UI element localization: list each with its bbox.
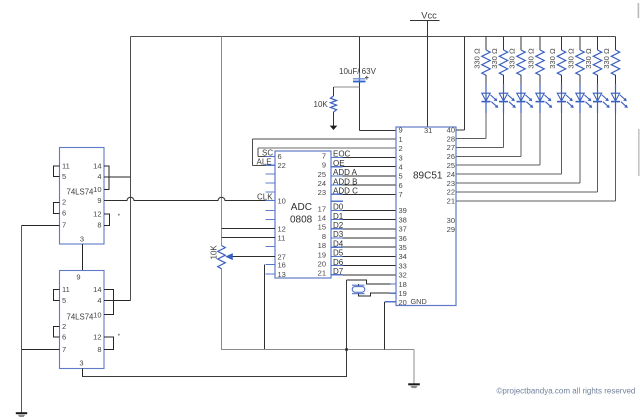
wire U3 pin 7 to ground line bbox=[22, 349, 60, 351]
svg-text:5: 5 bbox=[399, 172, 403, 181]
svg-text:35: 35 bbox=[399, 243, 407, 252]
svg-text:23: 23 bbox=[447, 179, 455, 188]
svg-text:27: 27 bbox=[447, 143, 455, 152]
ic U1 ADC 0808 bbox=[275, 151, 331, 279]
svg-text:12: 12 bbox=[93, 333, 101, 342]
ic U2 74LS74 (upper) bbox=[60, 148, 105, 245]
ground symbol right bbox=[408, 383, 420, 388]
ADC free right pin stub bbox=[331, 200, 343, 202]
svg-text:38: 38 bbox=[399, 215, 407, 224]
wire left vertical from rail to U3 pin4 bracket bbox=[130, 37, 132, 301]
svg-text:26: 26 bbox=[447, 152, 455, 161]
svg-text:8: 8 bbox=[97, 345, 101, 354]
svg-text:ADD A: ADD A bbox=[333, 168, 358, 177]
svg-text:ADC: ADC bbox=[291, 202, 312, 213]
svg-text:32: 32 bbox=[399, 271, 407, 280]
wire ADC D6 to 89C51 bbox=[331, 258, 396, 267]
svg-text:©projectbandya.com all rights: ©projectbandya.com all rights reserved bbox=[497, 387, 636, 396]
bracket U3 pins 11-5 bbox=[22, 290, 348, 378]
wire ground rail down to ground symbol bbox=[413, 350, 415, 384]
ADC unconnected input pin ticks bbox=[266, 157, 276, 274]
svg-text:9: 9 bbox=[76, 273, 80, 282]
resistor R9 10K bbox=[314, 96, 337, 112]
svg-text:74LS74: 74LS74 bbox=[67, 188, 95, 197]
wire pot top to ADC pin 11 bbox=[222, 237, 276, 239]
svg-text:330 Ω: 330 Ω bbox=[473, 48, 482, 69]
wire gray vertical rail to pot bbox=[221, 37, 223, 246]
svg-text:10: 10 bbox=[93, 185, 101, 194]
ADC left pin stubs bbox=[266, 156, 276, 158]
svg-text:29: 29 bbox=[447, 225, 455, 234]
resistor R5 330 ohm bbox=[548, 37, 566, 76]
svg-text:10K: 10K bbox=[314, 100, 329, 109]
svg-text:30: 30 bbox=[447, 216, 455, 225]
svg-text:6: 6 bbox=[399, 181, 403, 190]
svg-text:14: 14 bbox=[93, 162, 101, 171]
wire LED D6 to 89C51 pin 23 bbox=[456, 113, 580, 183]
svg-text:16: 16 bbox=[278, 261, 286, 270]
resistor R2 330 ohm bbox=[490, 37, 508, 76]
svg-text:9: 9 bbox=[399, 126, 403, 135]
svg-text:18: 18 bbox=[399, 280, 407, 289]
svg-text:6: 6 bbox=[62, 333, 66, 342]
wiper arrow to ADC pin 27 bbox=[225, 253, 275, 260]
svg-text:21: 21 bbox=[318, 269, 326, 278]
wire Vcc stem to 89C51 pin 31 bbox=[427, 21, 429, 128]
wire crystal node down to ground rail and pin3 line bbox=[346, 280, 348, 377]
svg-text:D0: D0 bbox=[333, 203, 344, 212]
svg-text:7: 7 bbox=[62, 345, 66, 354]
wire ADC ADD B to 89C51 bbox=[331, 177, 396, 186]
wire ADC OE to 89C51 bbox=[331, 159, 396, 168]
wire left ground vertical bbox=[21, 226, 23, 414]
svg-text:23: 23 bbox=[318, 188, 326, 197]
svg-text:330 Ω: 330 Ω bbox=[490, 48, 499, 69]
svg-text:19: 19 bbox=[318, 250, 326, 259]
wire branch to resistor R9 10K bbox=[334, 86, 360, 88]
svg-text:EOC: EOC bbox=[333, 150, 351, 159]
svg-text:5: 5 bbox=[62, 296, 66, 305]
svg-text:2: 2 bbox=[62, 198, 66, 207]
resistor R3 330 ohm bbox=[508, 37, 526, 76]
wire LED D4 to 89C51 pin 25 bbox=[456, 113, 540, 165]
crystal X1 bbox=[352, 285, 365, 294]
svg-text:330 Ω: 330 Ω bbox=[527, 48, 536, 69]
svg-text:8: 8 bbox=[322, 232, 326, 241]
svg-text:Vcc: Vcc bbox=[421, 11, 437, 21]
svg-text:2: 2 bbox=[62, 322, 66, 331]
junction dot near U2 pin 12 bbox=[118, 214, 120, 216]
wire ADC D1 to 89C51 bbox=[331, 212, 396, 221]
wire ADC pins 16-13 bracket to ground rail bbox=[264, 265, 266, 350]
wire ALE loop to 89C51 pin 1 bbox=[253, 139, 397, 165]
svg-text:1: 1 bbox=[399, 135, 403, 144]
svg-text:20: 20 bbox=[399, 298, 407, 307]
ic U4 89C51 bbox=[396, 126, 456, 308]
wire U2 pin 7 to ground line bbox=[22, 225, 60, 227]
power Vcc label bbox=[410, 11, 440, 21]
wire pot bottom to ground rail bbox=[221, 269, 223, 350]
wire U3 pin 3 to ground rail riser bbox=[83, 376, 348, 378]
LED D2 bbox=[499, 75, 516, 113]
svg-text:28: 28 bbox=[447, 134, 455, 143]
resistor R7 330 ohm bbox=[584, 37, 602, 76]
wire LED D7 to 89C51 pin 22 bbox=[456, 113, 598, 192]
LED D6 bbox=[576, 75, 593, 113]
bracket U2 pins 12-8 bbox=[104, 214, 110, 226]
wire capacitor to 89C51 pin 9 (RST) bbox=[334, 83, 397, 131]
wire ADC D7 to 89C51 bbox=[331, 267, 396, 276]
svg-text:D4: D4 bbox=[333, 239, 344, 248]
junction dot near U3 pin 12 bbox=[118, 334, 120, 336]
svg-text:31: 31 bbox=[424, 126, 432, 135]
svg-text:D6: D6 bbox=[333, 258, 344, 267]
svg-text:14: 14 bbox=[318, 214, 326, 223]
svg-text:330 Ω: 330 Ω bbox=[548, 48, 557, 69]
wire SC loop to 89C51 pin 2 bbox=[258, 147, 396, 149]
LED D5 bbox=[557, 75, 574, 113]
resistor R1 330 ohm bbox=[473, 37, 491, 76]
LED D8 bbox=[611, 75, 628, 113]
resistor R6 330 ohm bbox=[567, 37, 585, 76]
svg-text:12: 12 bbox=[278, 225, 286, 234]
svg-text:11: 11 bbox=[62, 162, 70, 171]
wire rail down to capacitor C1 bbox=[359, 37, 361, 74]
bracket U3 pins 2-6 bbox=[54, 327, 60, 338]
wire 89C51 pin 18 to crystal X1 bbox=[347, 280, 397, 377]
svg-text:D2: D2 bbox=[333, 221, 344, 230]
svg-text:22: 22 bbox=[278, 161, 286, 170]
resistor R4 330 ohm bbox=[527, 37, 545, 76]
svg-text:18: 18 bbox=[318, 241, 326, 250]
svg-text:9: 9 bbox=[97, 196, 101, 205]
wire ground rail bbox=[222, 302, 415, 384]
svg-text:13: 13 bbox=[278, 270, 286, 279]
svg-text:330 Ω: 330 Ω bbox=[508, 48, 517, 69]
svg-text:19: 19 bbox=[399, 289, 407, 298]
svg-text:4: 4 bbox=[399, 163, 403, 172]
wire pot top to ADC pin 12 bbox=[222, 228, 276, 230]
svg-text:10K: 10K bbox=[210, 245, 219, 260]
potentiometer VR1 10K bbox=[210, 245, 226, 269]
svg-text:9: 9 bbox=[322, 161, 326, 170]
svg-text:330 Ω: 330 Ω bbox=[567, 48, 576, 69]
svg-text:D5: D5 bbox=[333, 249, 344, 258]
svg-text:3: 3 bbox=[399, 153, 403, 162]
svg-text:89C51: 89C51 bbox=[413, 171, 443, 182]
svg-text:3: 3 bbox=[79, 359, 83, 368]
svg-text:8: 8 bbox=[97, 221, 101, 230]
wire 89C51 pin 19 to crystal X1 bbox=[359, 293, 397, 296]
wire LED D8 to 89C51 pin 21 bbox=[456, 113, 616, 201]
svg-text:7: 7 bbox=[399, 190, 403, 199]
svg-text:D3: D3 bbox=[333, 230, 344, 239]
svg-text:74LS74: 74LS74 bbox=[67, 313, 95, 322]
wire U2 pin 9 to ADC CLK (hops) bbox=[104, 197, 276, 200]
svg-text:7: 7 bbox=[322, 151, 326, 160]
svg-text:6: 6 bbox=[62, 209, 66, 218]
svg-text:22: 22 bbox=[447, 188, 455, 197]
svg-text:10uF/ 63V: 10uF/ 63V bbox=[339, 67, 377, 76]
svg-text:5: 5 bbox=[62, 172, 66, 181]
wire U2 pin 4 to vertical bbox=[104, 176, 131, 178]
svg-text:GND: GND bbox=[411, 297, 427, 306]
svg-text:14: 14 bbox=[93, 285, 101, 294]
bracket U3 pins 14-10 bbox=[104, 290, 114, 315]
wire U3 pin 3 down bbox=[82, 369, 84, 378]
wire U3 pin 4 to vertical bbox=[104, 300, 131, 302]
wire ADC EOC to 89C51 bbox=[331, 150, 396, 159]
svg-text:ADD B: ADD B bbox=[333, 177, 357, 186]
svg-text:3: 3 bbox=[80, 235, 84, 244]
svg-text:OE: OE bbox=[333, 159, 345, 168]
wire 89C51 pin 20 GND drop bbox=[385, 301, 397, 303]
svg-text:11: 11 bbox=[278, 234, 286, 243]
svg-text:12: 12 bbox=[93, 210, 101, 219]
wire LED D3 to 89C51 pin 26 bbox=[456, 113, 521, 156]
svg-text:D7: D7 bbox=[333, 267, 344, 276]
junction dot ground rail / crystal riser bbox=[345, 348, 348, 351]
edge artifact marks bbox=[638, 3, 640, 176]
svg-text:17: 17 bbox=[318, 204, 326, 213]
svg-text:11: 11 bbox=[62, 285, 70, 294]
svg-text:33: 33 bbox=[399, 261, 407, 270]
svg-text:7: 7 bbox=[62, 221, 66, 230]
ground symbol left bbox=[16, 412, 27, 417]
svg-text:39: 39 bbox=[399, 206, 407, 215]
svg-text:37: 37 bbox=[399, 225, 407, 234]
bracket U3 pins 12-8 bbox=[104, 337, 114, 350]
svg-text:330 Ω: 330 Ω bbox=[602, 48, 611, 69]
wire LED D1 to 89C51 pin 28 bbox=[456, 113, 486, 139]
svg-text:20: 20 bbox=[318, 260, 326, 269]
svg-text:2: 2 bbox=[399, 144, 403, 153]
wire U2 pin 3 to U3 pin 9 bbox=[82, 244, 84, 271]
bracket U2 pins 14-10 bbox=[104, 166, 109, 190]
svg-text:6: 6 bbox=[278, 152, 282, 161]
wire ADC D4 to 89C51 bbox=[331, 239, 396, 248]
LED D1 bbox=[482, 75, 499, 113]
wire LED D5 to 89C51 pin 24 bbox=[456, 113, 562, 174]
wire ADC D0 to 89C51 bbox=[331, 203, 396, 212]
svg-text:4: 4 bbox=[97, 296, 101, 305]
svg-text:ADD C: ADD C bbox=[333, 187, 358, 196]
resistor R8 330 ohm bbox=[602, 37, 620, 76]
bracket U2 pins 2-6 bbox=[54, 203, 60, 214]
svg-text:24: 24 bbox=[447, 170, 455, 179]
svg-text:15: 15 bbox=[318, 223, 326, 232]
svg-text:21: 21 bbox=[447, 197, 455, 206]
LED D3 bbox=[517, 75, 534, 113]
89C51 left pin stubs 18,19 bbox=[391, 284, 397, 293]
wire ADC D3 to 89C51 bbox=[331, 230, 396, 239]
wire ADC ADD A to 89C51 bbox=[331, 168, 396, 177]
svg-text:25: 25 bbox=[318, 170, 326, 179]
svg-text:D1: D1 bbox=[333, 212, 344, 221]
wire rail to 89C51 pin 40 bbox=[456, 37, 465, 131]
wire ADC D5 to 89C51 bbox=[331, 249, 396, 258]
wire ADC D2 to 89C51 bbox=[331, 221, 396, 230]
wire ADC ADD C to 89C51 bbox=[331, 187, 396, 196]
ground arrow below R9 bbox=[330, 112, 338, 130]
wire Vcc top rail bbox=[131, 36, 616, 38]
LED D7 bbox=[593, 75, 610, 113]
svg-text:330 Ω: 330 Ω bbox=[584, 48, 593, 69]
ic U3 74LS74 (lower) bbox=[60, 271, 105, 369]
svg-text:10: 10 bbox=[278, 197, 286, 206]
svg-text:10: 10 bbox=[93, 311, 101, 320]
LED D4 bbox=[536, 75, 553, 113]
bracket U2 pins 11-5 bbox=[22, 166, 131, 271]
wire LED D2 to 89C51 pin 27 bbox=[456, 113, 504, 147]
svg-text:0808: 0808 bbox=[290, 215, 313, 226]
svg-text:25: 25 bbox=[447, 161, 455, 170]
svg-text:24: 24 bbox=[318, 179, 326, 188]
svg-text:34: 34 bbox=[399, 252, 407, 261]
svg-text:4: 4 bbox=[97, 172, 101, 181]
svg-text:36: 36 bbox=[399, 234, 407, 243]
capacitor C1 10uF/63V bbox=[339, 67, 377, 82]
